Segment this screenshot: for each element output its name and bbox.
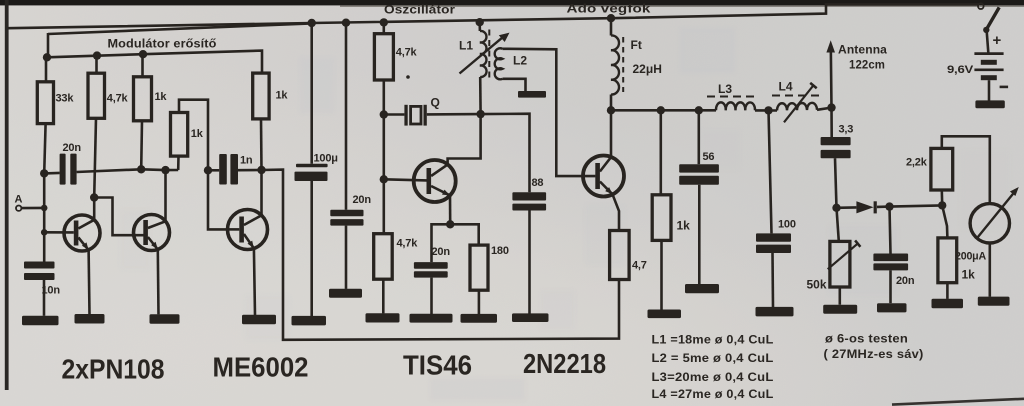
svg-text:2N2218: 2N2218 [523, 348, 606, 379]
svg-text:20n: 20n [63, 142, 82, 154]
svg-text:L4 =27me ø 0,4 CuL: L4 =27me ø 0,4 CuL [652, 389, 774, 401]
svg-text:33k: 33k [56, 93, 75, 105]
svg-text:3,3: 3,3 [839, 124, 854, 136]
svg-text:L1: L1 [459, 39, 473, 53]
svg-text:A: A [15, 194, 23, 206]
svg-text:Oszcillátor: Oszcillátor [384, 5, 455, 17]
svg-text:L1 =18me ø 0,4 CuL: L1 =18me ø 0,4 CuL [652, 335, 774, 347]
svg-text:4,7k: 4,7k [396, 47, 418, 59]
svg-text:180: 180 [491, 245, 509, 257]
svg-text:56: 56 [703, 151, 715, 163]
svg-text:ø 6-os testen: ø 6-os testen [825, 334, 908, 346]
svg-text:22μH: 22μH [633, 62, 662, 76]
svg-text:Antenna: Antenna [838, 45, 888, 57]
svg-text:100μ: 100μ [314, 153, 338, 165]
svg-text:4,7k: 4,7k [397, 237, 419, 249]
svg-text:TIS46: TIS46 [403, 350, 472, 381]
svg-text:1n: 1n [240, 155, 253, 167]
svg-text:L2 = 5me ø 0,4 CuL: L2 = 5me ø 0,4 CuL [652, 353, 774, 365]
svg-text:200μA: 200μA [955, 251, 986, 263]
svg-text:122cm: 122cm [849, 60, 885, 72]
svg-text:L3: L3 [718, 82, 732, 96]
svg-text:Ft: Ft [631, 38, 642, 52]
svg-text:1k: 1k [276, 90, 289, 102]
svg-text:4,7: 4,7 [632, 260, 647, 272]
svg-text:1k: 1k [962, 268, 976, 282]
svg-text:Q: Q [431, 96, 440, 110]
svg-text:Modulátor erősítő: Modulátor erősítő [108, 39, 217, 51]
svg-text:4,7k: 4,7k [107, 93, 129, 105]
svg-text:88: 88 [532, 177, 544, 189]
svg-text:( 27MHz-es sáv): ( 27MHz-es sáv) [824, 349, 924, 361]
svg-text:10n: 10n [42, 285, 61, 297]
svg-text:L4: L4 [779, 80, 793, 94]
svg-text:20n: 20n [432, 246, 451, 258]
svg-text:50k: 50k [807, 278, 827, 292]
svg-text:2,2k: 2,2k [906, 157, 928, 169]
svg-text:1k: 1k [191, 128, 204, 140]
svg-text:L3=20me ø 0,4 CuL: L3=20me ø 0,4 CuL [652, 372, 774, 384]
svg-text:1k: 1k [677, 219, 691, 233]
svg-text:20n: 20n [353, 194, 372, 206]
svg-text:1k: 1k [155, 91, 168, 103]
svg-text:100: 100 [778, 219, 796, 231]
svg-text:ME6002: ME6002 [213, 352, 309, 383]
svg-text:2xPN108: 2xPN108 [62, 354, 165, 385]
svg-text:+: + [993, 32, 1002, 49]
svg-text:9,6V: 9,6V [947, 64, 974, 76]
svg-text:Adó végfok: Adó végfok [567, 4, 652, 16]
svg-text:L2: L2 [513, 54, 527, 68]
svg-text:20n: 20n [896, 275, 915, 287]
